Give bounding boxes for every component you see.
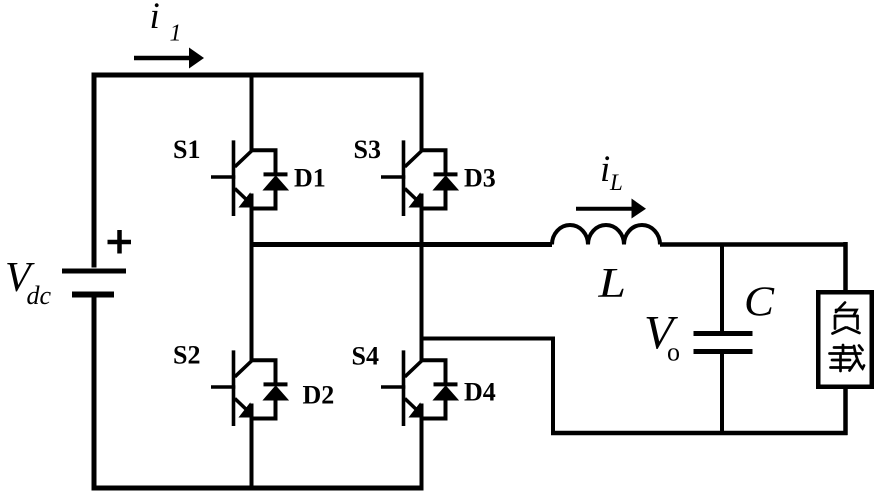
svg-text:S3: S3 bbox=[354, 135, 381, 164]
svg-text:1: 1 bbox=[170, 21, 182, 47]
svg-text:i: i bbox=[150, 0, 160, 37]
svg-text:C: C bbox=[744, 280, 775, 326]
svg-text:L: L bbox=[597, 261, 626, 307]
svg-text:dc: dc bbox=[27, 281, 52, 310]
svg-text:D4: D4 bbox=[464, 378, 496, 407]
svg-text:S2: S2 bbox=[173, 341, 200, 370]
svg-text:D1: D1 bbox=[294, 164, 326, 193]
svg-text:S4: S4 bbox=[352, 342, 379, 371]
svg-text:o: o bbox=[667, 338, 680, 367]
svg-text:i: i bbox=[600, 149, 610, 190]
svg-text:L: L bbox=[609, 170, 623, 195]
svg-text:S1: S1 bbox=[173, 135, 200, 164]
svg-text:D3: D3 bbox=[464, 164, 496, 193]
svg-text:D2: D2 bbox=[303, 381, 335, 410]
